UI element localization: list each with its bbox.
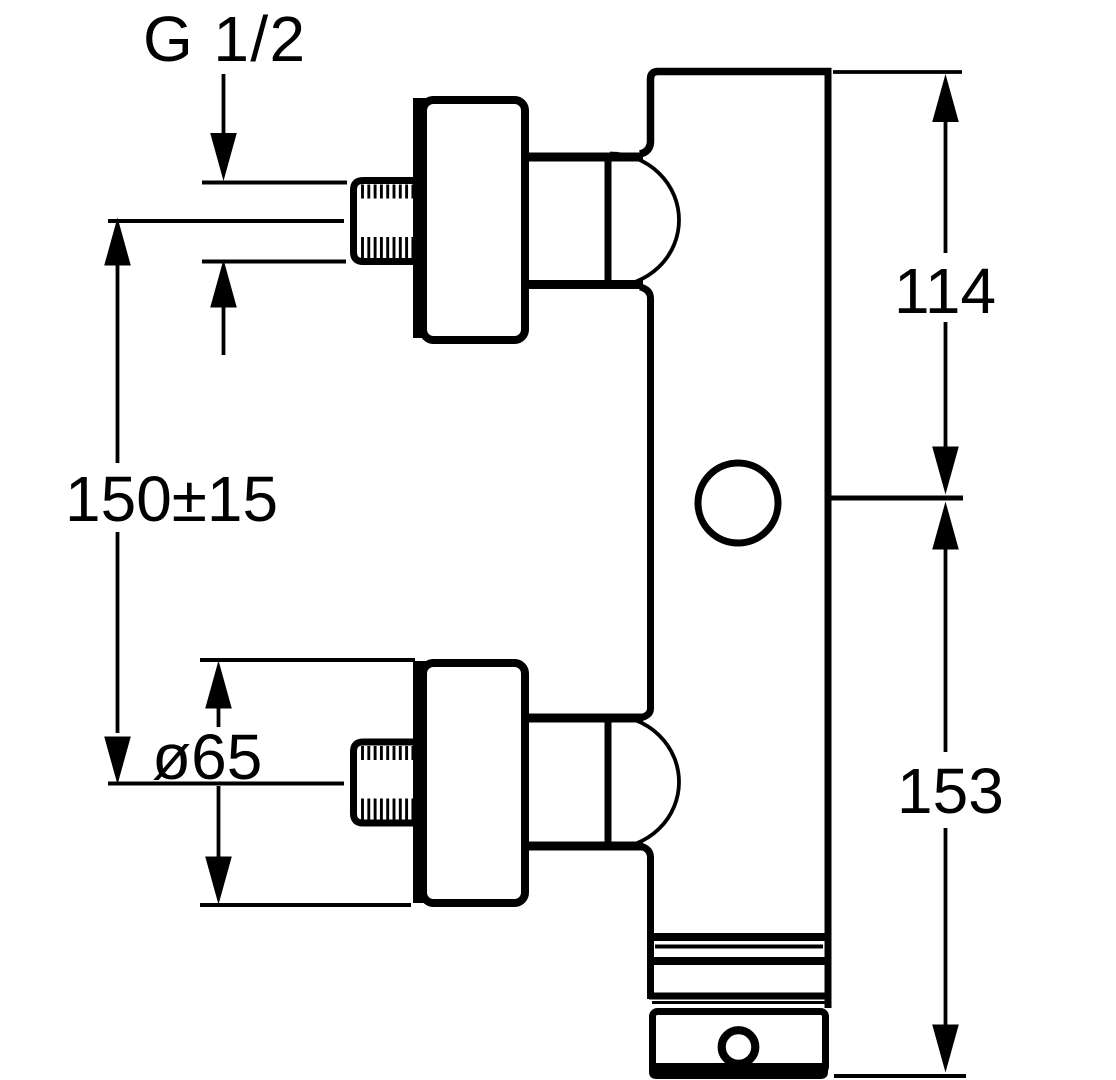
extension line nipple top edge — [202, 181, 347, 185]
svg-text:153: 153 — [897, 755, 1004, 827]
svg-text:G 1/2: G 1/2 — [143, 3, 307, 75]
svg-text:150±15: 150±15 — [65, 463, 278, 535]
body bottom separation line 4 — [649, 993, 828, 1000]
main body top edge and left edge upper segment — [640, 72, 832, 155]
bottom connector cylinder — [524, 714, 643, 851]
dimension ø65 extension lines — [200, 658, 415, 662]
dimension arrow G1/2 bottom (up) — [210, 260, 237, 356]
svg-text:114: 114 — [894, 255, 996, 327]
body bottom separation line 1 — [648, 933, 829, 941]
top connector cylinder — [524, 153, 643, 290]
svg-text:ø65: ø65 — [152, 721, 262, 793]
top wall flange — [413, 98, 525, 340]
extension line body top right — [833, 70, 962, 74]
bottom wall flange — [413, 661, 525, 903]
bottom inlet nipple G1/2 thread — [354, 742, 416, 823]
main body left edge middle segment — [640, 287, 651, 718]
dimension arrow G1/2 top (down) — [210, 74, 237, 181]
main body right edge — [825, 68, 832, 1008]
handle circle — [698, 463, 778, 543]
centerline bottom inlet — [108, 782, 344, 786]
bottom cap outline — [653, 1012, 826, 1072]
bottom screw circle — [722, 1030, 756, 1064]
extension line mid right — [831, 496, 963, 501]
extension line bottom right — [834, 1074, 966, 1078]
dimension 150±15 line and arrows — [104, 218, 131, 785]
main body left edge lower segment — [640, 846, 651, 999]
centerline top inlet — [108, 219, 344, 223]
bottom dome — [610, 716, 679, 849]
dimension ø65 line and arrows — [205, 661, 232, 905]
bottom cap black band — [649, 1063, 828, 1079]
dimension 153 line and arrows — [932, 502, 959, 1073]
top dome — [610, 154, 679, 287]
body bottom separation line 3 — [649, 957, 828, 965]
top inlet nipple G1/2 thread — [354, 181, 416, 262]
dimension 114 line and arrows — [932, 74, 959, 495]
body bottom separation line 2 thin — [655, 945, 823, 949]
body bottom separation line 5 thin — [652, 1001, 825, 1004]
extension line nipple bottom edge — [202, 260, 346, 264]
